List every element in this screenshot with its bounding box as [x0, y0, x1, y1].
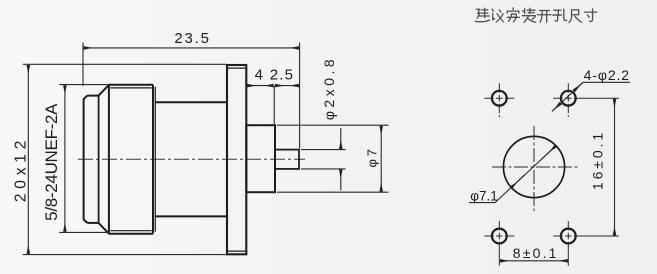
dim 8+-0.1 dimension line	[500, 260, 568, 262]
svg-text:4-φ2.2: 4-φ2.2	[584, 67, 630, 83]
crosshair top-left hole	[484, 83, 514, 117]
char kai 开	[538, 11, 551, 23]
nut top inner chamfer line	[110, 87, 151, 89]
dim phi2x0.8 top extension line	[301, 149, 346, 151]
svg-text:φ7: φ7	[365, 147, 380, 168]
thread 5/8-24UNEF-2A dimension line	[64, 85, 66, 231]
svg-text:16±0.1: 16±0.1	[589, 130, 605, 190]
nut front face	[108, 85, 110, 234]
dim 20x12 top extension line	[23, 63, 227, 65]
nut bottom edge	[109, 233, 153, 235]
dim phi2x0.8 upper arrow line	[340, 128, 342, 149]
crosshair bottom-right hole + extensions	[553, 221, 619, 266]
dim 23.5 left extension line	[82, 43, 84, 87]
mounting hole top-right	[561, 91, 576, 106]
svg-text:20x12: 20x12	[12, 136, 29, 202]
dim phi7 top extension line	[277, 124, 389, 126]
phi7 rear boss outline	[246, 125, 275, 192]
char kong 孔	[553, 9, 567, 21]
char an 安	[507, 8, 519, 22]
svg-text:5/8-24UNEF-2A: 5/8-24UNEF-2A	[42, 103, 61, 221]
connector body cylinder top edge	[155, 101, 227, 103]
svg-text:φ7.1: φ7.1	[470, 188, 498, 203]
contact pin outline	[275, 150, 299, 169]
square flange outline	[227, 65, 246, 254]
dim 4 dimension line	[247, 85, 274, 87]
dim 23.5 right extension line	[299, 43, 301, 149]
svg-text:2.5: 2.5	[270, 67, 294, 84]
flange bottom inner chamfer line	[228, 250, 245, 252]
char yi 议	[492, 9, 503, 22]
thread 5/8-24UNEF-2A bottom extension line	[59, 231, 108, 233]
mounting hole bottom-left	[492, 229, 507, 244]
dim phi7 dimension line	[380, 126, 382, 192]
title: recommended mounting hole dimensions (hand-drawn CJK glyphs)	[475, 8, 596, 23]
nut front chamfer top	[99, 85, 109, 96]
nose cone edge line	[98, 96, 100, 223]
coupling nut nose top edge	[87, 95, 98, 97]
dim 2.5 dimension line	[275, 85, 299, 87]
dim 16+-0.1 dimension line	[614, 99, 616, 236]
dim 4 / 2.5 shared extension line	[273, 86, 275, 125]
crosshair bottom-left hole + extension to 8 dim	[484, 221, 514, 266]
coupling nut nose bottom edge	[87, 222, 98, 224]
char chi 尺	[569, 10, 582, 23]
dim 20x12 dimension line	[27, 65, 29, 254]
char zhuang 装	[522, 8, 535, 22]
flange top inner chamfer line	[228, 67, 245, 69]
nut rear chamfer line	[154, 87, 156, 232]
svg-text:4: 4	[255, 67, 263, 84]
nut top edge	[109, 84, 153, 86]
svg-text:φ2x0.8: φ2x0.8	[321, 56, 337, 120]
char cun 寸	[584, 9, 596, 21]
dim 23.5 dimension line	[84, 47, 299, 49]
crosshair top-right hole + extension to 16 dim	[553, 83, 619, 117]
4-phi2.2 label leader	[552, 82, 630, 111]
nut bottom inner chamfer line	[110, 230, 151, 232]
nut front chamfer bottom	[99, 223, 109, 234]
svg-text:8±0.1: 8±0.1	[513, 245, 559, 261]
central hole vertical centerline	[533, 126, 535, 211]
nut rear face	[152, 85, 154, 234]
thread 5/8-24UNEF-2A top extension line	[59, 84, 109, 86]
coupling nut nose front face	[84, 96, 88, 223]
svg-text:23.5: 23.5	[174, 30, 210, 47]
dim phi7 bottom extension line	[277, 191, 389, 193]
central clearance hole phi7.1	[503, 136, 564, 197]
connector body cylinder bottom edge	[155, 215, 227, 217]
dim phi2x0.8 bottom extension line	[301, 168, 346, 170]
dim 20x12 bottom extension line	[23, 254, 227, 256]
central hole horizontal centerline	[492, 166, 578, 168]
mounting hole top-left	[492, 91, 507, 106]
centerline of connector axis	[78, 158, 305, 160]
mounting hole bottom-right	[561, 229, 576, 244]
char jian 建	[475, 8, 489, 22]
phi7.1 leader diagonal with arrows	[469, 146, 556, 203]
dim phi2x0.8 lower arrow line	[340, 170, 342, 191]
